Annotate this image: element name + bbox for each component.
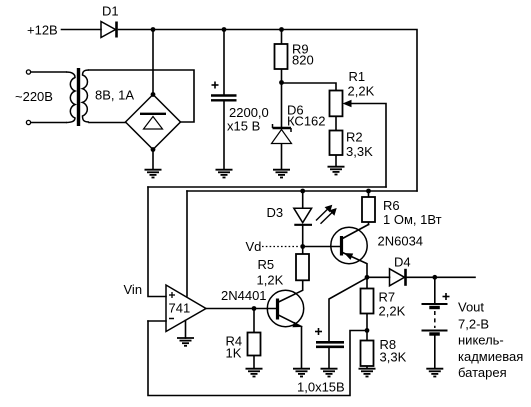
wire junction to R1 top — [282, 83, 337, 91]
svg-text:D3: D3 — [267, 205, 284, 220]
node dot bridge top — [151, 92, 156, 97]
resistor R5 — [296, 254, 309, 280]
wire D4 cathode to output — [407, 276, 476, 278]
svg-text:R5: R5 — [258, 257, 275, 272]
svg-text:2N4401: 2N4401 — [221, 288, 267, 303]
svg-text:1 Ом, 1Вт: 1 Ом, 1Вт — [383, 212, 442, 227]
plus sign of C1 — [212, 82, 219, 89]
wire junction to D6 cathode — [281, 83, 283, 128]
op-amp U1 741 triangle — [166, 285, 206, 332]
plus sign of C2 — [315, 328, 322, 335]
wire R2 bottom to ground — [335, 155, 337, 167]
wire R9 bottom to junction — [281, 69, 283, 83]
svg-text:7,2-В: 7,2-В — [458, 317, 489, 332]
diode D1 — [101, 22, 117, 38]
node dot D4-R7-C2 — [365, 275, 370, 280]
transistor Q1 emitter arrow (NPN outward) — [292, 322, 301, 328]
zener diode D6 — [272, 124, 292, 144]
wire R6 bottom stub — [368, 222, 370, 225]
op-amp minus input sign — [169, 318, 174, 320]
svg-text:D1: D1 — [102, 4, 119, 19]
wire op-amp output to 2N4401 base — [206, 308, 277, 310]
battery B1 dashed middle — [434, 311, 436, 328]
ground (741) — [177, 338, 194, 346]
wire R8 top lead — [366, 330, 368, 340]
wire R8 bottom to ground — [366, 366, 368, 369]
resistor R6 — [362, 197, 375, 222]
wire transformer secondary bottom to bridge left vertex — [89, 122, 126, 124]
wire R1 wiper to line A — [352, 104, 386, 188]
svg-text:1K: 1K — [226, 346, 242, 361]
ground (R4) — [246, 369, 263, 377]
wire battery top lead — [434, 277, 436, 303]
wire D4 anode lead — [367, 276, 390, 278]
ground (R8) — [359, 369, 376, 377]
wire bridge bottom vertex to ground — [152, 150, 154, 170]
battery B1 cell2 long plate — [422, 330, 448, 332]
wire battery bottom lead to ground — [434, 336, 436, 369]
ground (Q1 emitter) — [293, 369, 310, 377]
wire Vd junction to R5 top — [302, 247, 304, 255]
svg-text:кадмиевая: кадмиевая — [458, 349, 523, 364]
bridge rectifier diamond — [126, 95, 181, 150]
wire D3 anode lead from lower rail — [302, 191, 304, 208]
resistor R7 — [361, 289, 374, 314]
node dot R9-D6-R1 — [279, 80, 284, 85]
dotted Vd node line — [262, 246, 300, 248]
wire +12V rail from D1 to top-right corner and down to lower rail — [119, 30, 418, 192]
wire R9 top lead — [281, 30, 283, 45]
svg-text:R1: R1 — [349, 69, 366, 84]
transistor Q2 2N6034 — [331, 227, 367, 263]
wire Vd junction to 2N6034 base — [303, 246, 340, 248]
node dot Vd — [300, 244, 305, 249]
resistor R4 — [248, 333, 261, 356]
wire 2N4401 emitter to ground — [301, 327, 303, 369]
op-amp plus input sign — [169, 292, 175, 298]
svg-text:3,3K: 3,3K — [380, 350, 407, 365]
svg-text:R2: R2 — [346, 130, 363, 145]
svg-text:1,2K: 1,2K — [257, 273, 284, 288]
wire transformer secondary top to bridge right vertex — [89, 70, 194, 122]
wire R6 top lead from lower rail — [368, 191, 370, 197]
wire Vin vertical into op-amp + input — [148, 187, 166, 297]
resistor R8 — [361, 341, 374, 367]
node dot rail-R6 — [366, 189, 371, 194]
wire 2N6034 emitter diagonal and drop to D4 node — [343, 253, 368, 278]
wire R5 bottom to 2N4401 collector — [279, 280, 303, 302]
wire C2 bottom lead to ground — [328, 348, 330, 369]
svg-text:2,2K: 2,2K — [348, 84, 375, 99]
svg-text:2N6034: 2N6034 — [378, 234, 424, 249]
node dot rail-C1 — [222, 27, 227, 32]
battery B1 cell1 long plate — [422, 303, 448, 305]
svg-text:R6: R6 — [383, 198, 400, 213]
capacitor C2 1.0uF — [316, 342, 344, 347]
LED D3 emission arrows — [316, 208, 333, 224]
node dot battery — [432, 275, 437, 280]
wire R7 bottom to feedback junction — [366, 314, 368, 331]
svg-text:2,2K: 2,2K — [379, 304, 406, 319]
svg-text:x15 В: x15 В — [227, 119, 260, 134]
wire reference line (line A) from Vin corner to wiper column — [148, 186, 386, 188]
node dot rail-D3 — [300, 189, 305, 194]
svg-text:R7: R7 — [379, 290, 396, 305]
transformer T1 primary winding — [66, 72, 75, 123]
svg-text:+12В: +12В — [27, 23, 58, 38]
transistor Q1 2N4401 — [267, 290, 303, 326]
ground (battery) — [426, 369, 443, 377]
node dot rail-bridge — [151, 27, 156, 32]
capacitor C1 2200uF — [211, 96, 237, 101]
terminal circle top of ~220V input — [26, 70, 30, 74]
wire 741 V+ pin drop — [186, 191, 188, 296]
wire bridge top vertex to +12V rail — [152, 30, 154, 95]
resistor R2 — [330, 131, 343, 156]
svg-text:батарея: батарея — [458, 365, 507, 380]
ground (R2) — [328, 167, 345, 175]
wire C1 bottom lead to ground — [223, 102, 225, 170]
potentiometer R1 body — [330, 91, 343, 117]
diode D4 — [390, 269, 406, 286]
wire D4 node to C2 plus lead — [329, 278, 367, 341]
wire 2N6034 collector diagonal — [343, 225, 369, 239]
wire R4 bottom to ground — [253, 356, 255, 369]
svg-text:никель-: никель- — [458, 333, 504, 348]
transistor Q2 emitter arrow (points to base) — [344, 253, 353, 260]
svg-text:КС162: КС162 — [287, 114, 326, 129]
svg-text:820: 820 — [292, 53, 314, 68]
svg-text:Vin: Vin — [124, 282, 143, 297]
battery B1 cell2 short thick plate — [429, 332, 440, 335]
transformer T1 secondary winding — [83, 70, 90, 122]
wire D6 anode to ground — [281, 144, 283, 170]
ground (D6) — [273, 170, 290, 178]
ground (C2) — [321, 369, 338, 377]
ground (C1) — [216, 170, 233, 178]
resistor R9 — [275, 44, 288, 69]
svg-text:D4: D4 — [394, 255, 411, 270]
wire primary top terminal lead — [31, 71, 66, 73]
node dot rail-R9 — [279, 27, 284, 32]
wire R7 top lead — [366, 277, 368, 288]
svg-text:Vout: Vout — [458, 300, 484, 315]
svg-text:1,0x15В: 1,0x15В — [297, 380, 345, 395]
svg-text:~220В: ~220В — [15, 89, 53, 104]
transformer T1 core — [77, 68, 80, 126]
svg-text:8В, 1А: 8В, 1А — [95, 88, 134, 103]
wire +12V rail left segment — [62, 29, 102, 31]
svg-text:3,3K: 3,3K — [346, 144, 373, 159]
wire lower supply rail (line B) — [187, 190, 417, 192]
svg-text:741: 741 — [169, 301, 191, 316]
wire feedback loop bottom — [148, 321, 367, 396]
wire D3 cathode to Vd junction — [302, 226, 304, 247]
battery B1 cell1 short thick plate — [429, 306, 440, 309]
node dot bridge bottom — [151, 147, 156, 152]
wire primary bottom terminal lead — [31, 122, 66, 124]
wire base junction to R4 top — [253, 309, 255, 333]
wire C1 top lead — [223, 30, 225, 95]
node dot base-R4 — [252, 306, 257, 311]
ground (bridge) — [145, 170, 162, 178]
wire 2N4401 emitter diagonal — [279, 315, 302, 326]
potentiometer R1 wiper arrow — [343, 100, 352, 107]
wire op-amp inverting input lead — [148, 320, 166, 322]
svg-text:Vd: Vd — [246, 239, 262, 254]
wire 741 V- pin to ground stem — [185, 321, 187, 339]
plus sign of battery — [443, 293, 450, 300]
terminal circle bottom of ~220V input — [26, 120, 30, 124]
wire R1 bottom to R2 top — [335, 116, 337, 130]
node dot R7-R8-feedback — [365, 328, 370, 333]
LED D3 — [294, 208, 312, 225]
